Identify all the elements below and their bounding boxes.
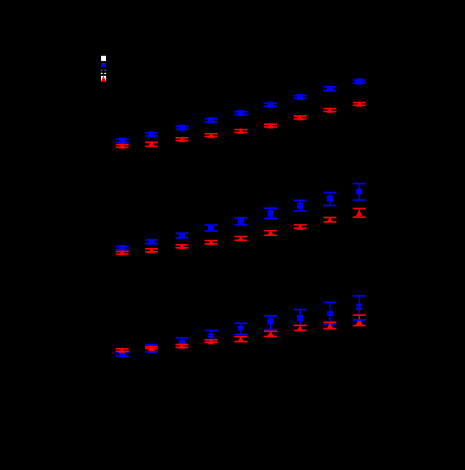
blue square point panel3 col3 xyxy=(175,337,188,348)
red triangle point panel3 col7 xyxy=(294,325,307,332)
red triangle point panel2 col4 xyxy=(205,239,218,245)
blue square point panel2 col7 xyxy=(294,200,307,212)
blue square point panel1 col5 xyxy=(234,110,247,116)
blue square point panel2 col2 xyxy=(145,239,158,245)
blue square point panel2 col8 xyxy=(323,192,336,207)
red triangle point panel1 col4 xyxy=(205,132,218,138)
red triangle point panel3 col8 xyxy=(323,322,336,330)
legend entry 4: white square with red triangle marker xyxy=(101,76,106,82)
blue square point panel3 col8 xyxy=(323,302,336,325)
blue square point panel1 col7 xyxy=(294,94,307,100)
red triangle point panel1 col1 xyxy=(116,143,129,149)
blue square point panel3 col1 xyxy=(116,352,129,358)
blue square point panel1 col2 xyxy=(145,131,158,137)
blue square point panel2 col5 xyxy=(234,217,247,225)
blue square point panel1 col1 xyxy=(116,138,129,144)
red triangle point panel2 col3 xyxy=(175,243,188,249)
blue square point panel2 col6 xyxy=(264,207,277,219)
red triangle point panel1 col5 xyxy=(234,128,247,134)
red triangle point panel3 col4 xyxy=(205,339,218,345)
blue square point panel3 col7 xyxy=(294,309,307,326)
red triangle point panel2 col9 xyxy=(353,208,366,218)
blue square point panel3 col4 xyxy=(205,330,218,343)
blue square point panel1 col3 xyxy=(175,125,188,131)
blue square point panel2 col3 xyxy=(175,232,188,238)
red triangle point panel3 col3 xyxy=(175,343,188,349)
legend entry 1: white square marker xyxy=(101,56,106,61)
red triangle point panel3 col2 xyxy=(145,345,158,351)
blue square point panel1 col4 xyxy=(205,117,218,123)
red triangle point panel1 col8 xyxy=(323,107,336,113)
blue square point panel2 col1 xyxy=(116,245,129,251)
red triangle point panel2 col5 xyxy=(234,236,247,242)
red triangle point panel1 col6 xyxy=(264,123,277,129)
red triangle point panel1 col3 xyxy=(175,136,188,142)
blue square point panel1 col8 xyxy=(323,86,336,92)
legend entry 2: blue square marker xyxy=(101,63,106,67)
blue bottom cap overdraw panel3 col9 xyxy=(353,319,366,321)
red triangle point panel2 col1 xyxy=(116,250,129,256)
blue square point panel3 col6 xyxy=(264,315,277,330)
blue square point panel3 col9 xyxy=(353,295,366,321)
blue square point panel1 col9 xyxy=(353,78,366,85)
red triangle point panel2 col7 xyxy=(294,224,307,230)
red triangle point panel3 col5 xyxy=(234,336,247,343)
red triangle point panel3 col6 xyxy=(264,331,277,338)
legend entry 3: dotted line glyph xyxy=(101,70,106,74)
blue square point panel3 col2 xyxy=(145,344,158,353)
red triangle point panel3 col9 xyxy=(353,314,366,326)
blue square point panel1 col6 xyxy=(264,102,277,108)
blue square point panel2 col4 xyxy=(205,224,218,232)
red triangle point panel3 col1 xyxy=(116,347,129,353)
red triangle point panel1 col2 xyxy=(145,141,158,147)
red triangle point panel2 col2 xyxy=(145,247,158,253)
red triangle point panel2 col8 xyxy=(323,217,336,223)
red triangle point panel1 col9 xyxy=(353,101,366,107)
red triangle point panel1 col7 xyxy=(294,115,307,121)
blue square point panel2 col9 xyxy=(353,183,366,201)
red triangle point panel2 col6 xyxy=(264,230,277,237)
blue square point panel3 col5 xyxy=(234,323,247,336)
